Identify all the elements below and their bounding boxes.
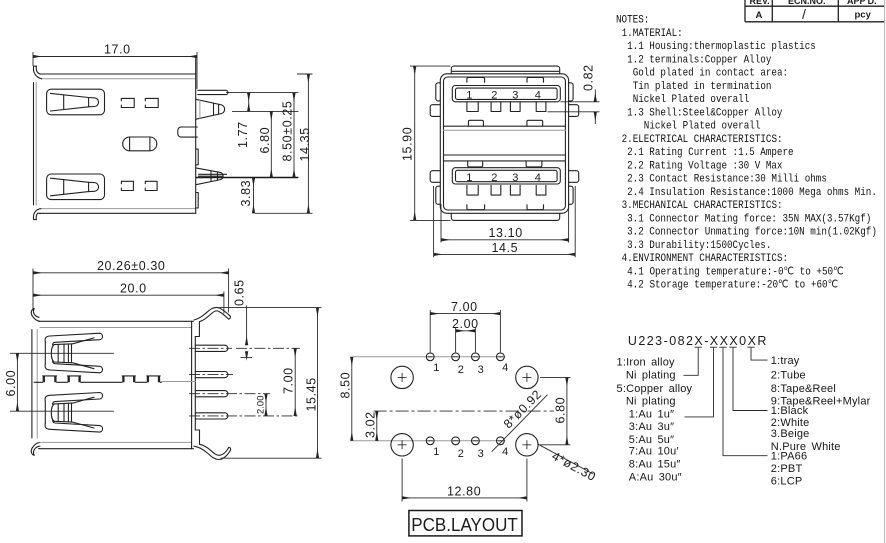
- ground latch upper: outer pill: [47, 89, 105, 115]
- board lock top-left: [430, 105, 440, 117]
- contact spring lower: [45, 393, 102, 433]
- extension line from pin1: [226, 92, 298, 94]
- svg-text:1.2 terminals:Copper Alloy: 1.2 terminals:Copper Alloy: [627, 54, 772, 66]
- svg-text:2.3 Contact Resistance:30 Mill: 2.3 Contact Resistance:30 Milli ohms: [627, 174, 827, 186]
- svg-text:ECN.NO.: ECN.NO.: [788, 0, 826, 6]
- svg-text:6.80: 6.80: [553, 397, 567, 424]
- shell left edge (double line): [33, 83, 35, 206]
- pin block top: [195, 322, 199, 337]
- svg-text:5:Au 5u″: 5:Au 5u″: [629, 434, 674, 446]
- dimension 15.90: [401, 66, 451, 220]
- pin 1: [195, 345, 228, 351]
- table grid: [745, 0, 885, 22]
- dimension 8.50±0.25: [281, 93, 295, 178]
- svg-text:6.00: 6.00: [4, 370, 18, 397]
- svg-text:4: 4: [535, 172, 541, 184]
- shell bottom edge (double line): [42, 208, 196, 210]
- lower port outer: [452, 168, 560, 184]
- lower port inner: [456, 170, 558, 181]
- svg-text:PCB.LAYOUT: PCB.LAYOUT: [411, 514, 518, 535]
- ear tab bottom-right: [569, 186, 574, 204]
- svg-text:Nickel Plated overall: Nickel Plated overall: [644, 121, 761, 133]
- mount flange claw top-right: [194, 307, 230, 321]
- rear housing top block: [451, 66, 559, 74]
- dimension 7.00: [430, 300, 500, 352]
- ground latch lower: inner fork: [51, 178, 99, 196]
- svg-text:1: 1: [466, 90, 472, 102]
- dimension 2.00: [452, 317, 479, 352]
- svg-text:7.00: 7.00: [451, 300, 478, 314]
- svg-text:Tin plated in termination: Tin plated in termination: [633, 81, 772, 93]
- upper port inner: [456, 88, 558, 99]
- svg-text:5:Copper alloy: 5:Copper alloy: [617, 383, 693, 395]
- dimension 1.77: [232, 93, 298, 148]
- lower contact pads: [467, 185, 546, 195]
- svg-text:1:PA66: 1:PA66: [771, 450, 807, 462]
- svg-text:3: 3: [512, 90, 518, 102]
- pin 2: [195, 372, 228, 378]
- mid tabs below divider: [468, 161, 483, 167]
- board lock bottom-left: [430, 171, 440, 183]
- dimension 14.5: [434, 186, 576, 257]
- contact fork upper right: [196, 99, 225, 119]
- row line bottom (extension): [354, 440, 506, 442]
- underline X material: [729, 346, 736, 348]
- svg-text:3: 3: [512, 172, 518, 184]
- pin block bottom: [195, 430, 199, 444]
- underline X plating: [710, 346, 717, 348]
- dimension 14.35: [255, 74, 313, 213]
- svg-text:1: 1: [433, 446, 439, 458]
- svg-text:1.3 Shell:Steel&Copper Alloy: 1.3 Shell:Steel&Copper Alloy: [627, 107, 783, 119]
- ear tab bottom-left: [436, 186, 441, 204]
- leader 8*Φ0.92: [492, 387, 548, 452]
- dimension 0.82: [548, 64, 600, 124]
- svg-text:Ni plating: Ni plating: [626, 396, 676, 408]
- ground latch lower: outer pill: [47, 174, 105, 200]
- svg-text:2.00: 2.00: [256, 396, 267, 415]
- leader to material option: [723, 348, 768, 456]
- center stadium hole: [123, 137, 157, 151]
- pin 4: [195, 413, 228, 419]
- svg-text:2: 2: [491, 172, 497, 184]
- svg-text:3.3 Durability:1500Cycles.: 3.3 Durability:1500Cycles.: [627, 240, 771, 252]
- housing right edge (double line): [191, 321, 193, 448]
- svg-text:4.2 Storage temperature:-20℃ t: 4.2 Storage temperature:-20℃ to +60℃: [627, 280, 838, 292]
- svg-text:3:Au 3u″: 3:Au 3u″: [629, 421, 674, 433]
- svg-text:REV.: REV.: [750, 0, 770, 6]
- mount hole bottom-left: [391, 434, 413, 456]
- housing top-left curl: [31, 308, 39, 321]
- svg-text:1: 1: [433, 362, 439, 374]
- housing top edge (double line): [39, 320, 194, 322]
- terminal comb mid: [34, 381, 161, 383]
- mid divider lines: [444, 125, 566, 127]
- svg-text:2.00: 2.00: [452, 317, 479, 331]
- dimension 17.0: [33, 43, 197, 90]
- dimension 3.02: [363, 411, 377, 441]
- upper port outer: [452, 86, 560, 102]
- svg-text:15.45: 15.45: [305, 377, 319, 411]
- svg-text:2:PBT: 2:PBT: [771, 463, 803, 475]
- mount flange claw bottom-right: [194, 444, 231, 459]
- svg-text:NOTES:: NOTES:: [616, 15, 649, 27]
- svg-text:3.Beige: 3.Beige: [771, 428, 810, 440]
- svg-text:2.4 Insulation Resistance:1000: 2.4 Insulation Resistance:1000 Mega ohms…: [627, 187, 877, 199]
- svg-text:7.00: 7.00: [282, 367, 296, 394]
- svg-text:1:Au 1u″: 1:Au 1u″: [629, 409, 674, 421]
- housing bottom-left curl: [31, 442, 40, 455]
- ear tab top-left: [436, 83, 441, 101]
- svg-text:7:Au 10u′: 7:Au 10u′: [629, 446, 679, 458]
- svg-text:20.0: 20.0: [120, 282, 147, 296]
- ear tab top-right: [569, 83, 574, 101]
- svg-text:Gold plated in contact area:: Gold plated in contact area:: [633, 68, 788, 80]
- shell bottom-left curled flange: [33, 209, 41, 220]
- pin hole row bottom: 4 holes: [426, 437, 504, 445]
- svg-text:3: 3: [478, 364, 484, 376]
- svg-text:4: 4: [502, 446, 508, 458]
- svg-text:1.77: 1.77: [236, 121, 250, 148]
- mount hole bottom-right: [516, 434, 538, 456]
- leader to color option: [733, 348, 768, 411]
- svg-text:17.0: 17.0: [104, 43, 131, 57]
- vent hole bracket 4: [145, 181, 157, 190]
- svg-text:2:Tube: 2:Tube: [771, 370, 806, 382]
- extension line from fork tip (dark): [196, 177, 298, 179]
- svg-text:1:Iron alloy: 1:Iron alloy: [617, 356, 676, 368]
- terminal pin 1 flat: [198, 90, 228, 94]
- svg-text:4.ENVIRONMENT CHARACTERISTICS:: 4.ENVIRONMENT CHARACTERISTICS:: [622, 253, 789, 265]
- contact fork lower right: [196, 168, 223, 185]
- svg-text:1.1 Housing:thermoplastic plas: 1.1 Housing:thermoplastic plastics: [627, 41, 816, 53]
- svg-text:3.2 Connector Unmating force:1: 3.2 Connector Unmating force:10N min(1.0…: [627, 227, 877, 239]
- pin 3 centerline: [189, 393, 270, 395]
- board lock bottom-right: [569, 171, 579, 183]
- shell inner outline: [444, 77, 566, 210]
- dimension 6.80: [540, 377, 570, 444]
- svg-text:1:Black: 1:Black: [771, 405, 809, 417]
- svg-text:0.65: 0.65: [233, 279, 247, 306]
- contact spring upper: [45, 333, 102, 373]
- pin 1 centerline: [189, 347, 300, 349]
- svg-text:4.1 Operating temperature:-0℃: 4.1 Operating temperature:-0℃ to +50℃: [627, 266, 844, 278]
- pin 2 centerline: [189, 374, 233, 376]
- vent hole bracket 1: [121, 98, 134, 107]
- contact leader line upper: [10, 352, 114, 354]
- dimension 20.26±0.30: [33, 259, 229, 312]
- shell body top edge (double line): [41, 73, 196, 75]
- bottom inner tabs: [467, 205, 485, 210]
- svg-text:13.10: 13.10: [489, 226, 523, 240]
- mount hole top-right: [516, 366, 538, 388]
- svg-text:3.83: 3.83: [239, 180, 253, 207]
- shell outer outline: [440, 74, 568, 214]
- underline X color: [719, 346, 726, 348]
- dimension 8.50: [338, 357, 352, 441]
- svg-text:3: 3: [478, 448, 484, 460]
- side tab rect upper: [196, 149, 198, 165]
- housing left edge (double line): [31, 330, 33, 439]
- svg-text:U223-082X-XXX0XR: U223-082X-XXX0XR: [628, 334, 767, 348]
- shell right edge: [195, 58, 197, 214]
- svg-text:2.ELECTRICAL CHARACTERISTICS:: 2.ELECTRICAL CHARACTERISTICS:: [622, 134, 783, 146]
- dimension 3.83: [239, 178, 254, 214]
- mid tabs above divider: [468, 120, 483, 126]
- PCB.LAYOUT title box: [409, 511, 522, 536]
- svg-text:/: /: [802, 6, 806, 22]
- svg-text:Ni plating: Ni plating: [626, 369, 676, 381]
- rear housing bottom block: [451, 213, 559, 220]
- shell top-left curled flange: [33, 66, 41, 79]
- pin 4 centerline: [189, 415, 300, 417]
- dimension 12.80: [402, 459, 527, 502]
- key notch: [178, 127, 198, 137]
- row line top (extension): [354, 356, 506, 358]
- svg-text:20.26±0.30: 20.26±0.30: [97, 259, 165, 273]
- svg-text:8:Tape&Reel: 8:Tape&Reel: [771, 383, 836, 395]
- housing bottom edge (double line): [40, 441, 192, 443]
- svg-text:6.80: 6.80: [258, 127, 272, 154]
- svg-text:15.90: 15.90: [401, 127, 415, 161]
- svg-text:APP'D.: APP'D.: [847, 0, 877, 6]
- svg-text:3.02: 3.02: [363, 411, 377, 438]
- vent hole bracket 2: [145, 98, 158, 107]
- dimension 13.10: [441, 204, 569, 243]
- leader to shell option: [684, 348, 699, 376]
- svg-text:14.5: 14.5: [492, 241, 519, 255]
- leader to packing option: [751, 348, 768, 360]
- svg-text:4: 4: [502, 362, 508, 374]
- svg-text:2.1 Rating Current :1.5 Ampere: 2.1 Rating Current :1.5 Ampere: [627, 147, 794, 159]
- svg-text:pcy: pcy: [855, 9, 872, 20]
- dimension 7.00: [282, 348, 296, 416]
- leader to plating option: [685, 348, 714, 417]
- side tab rect lower: [196, 193, 198, 209]
- svg-text:8.50±0.25: 8.50±0.25: [281, 101, 295, 162]
- svg-text:6:LCP: 6:LCP: [771, 476, 803, 488]
- svg-text:1:tray: 1:tray: [771, 355, 800, 367]
- svg-text:2:White: 2:White: [771, 417, 810, 429]
- ground latch upper: inner fork: [51, 93, 99, 111]
- svg-text:1: 1: [466, 172, 472, 184]
- contact leader line lower: [10, 410, 114, 412]
- svg-text:2: 2: [491, 90, 497, 102]
- board lock top-right: [569, 105, 579, 117]
- top inner tabs: [467, 78, 485, 83]
- svg-text:0.82: 0.82: [582, 64, 596, 91]
- svg-text:12.80: 12.80: [447, 484, 481, 498]
- mount hole top-left: [391, 366, 413, 388]
- dimension 6.00: [4, 353, 18, 411]
- svg-text:A: A: [756, 10, 763, 21]
- pin 3: [195, 391, 228, 397]
- svg-text:2: 2: [458, 448, 464, 460]
- vent hole bracket 3: [121, 181, 133, 190]
- svg-text:8.50: 8.50: [338, 372, 352, 399]
- svg-text:3.1 Connector Mating force: 35: 3.1 Connector Mating force: 35N MAX(3.57…: [627, 213, 871, 225]
- dimension 15.45: [219, 308, 322, 459]
- dimension 0.65: [233, 279, 253, 358]
- svg-text:8:Au 15u″: 8:Au 15u″: [629, 459, 681, 471]
- svg-text:A:Au 30u″: A:Au 30u″: [629, 472, 682, 484]
- sheet frame right border: [884, 0, 886, 543]
- svg-text:2: 2: [458, 364, 464, 376]
- svg-text:Nickel Plated overall: Nickel Plated overall: [633, 94, 750, 106]
- leader 4*Φ2.30: [537, 444, 598, 484]
- svg-text:2.2 Rating Voltage :30 V Max: 2.2 Rating Voltage :30 V Max: [627, 160, 783, 172]
- center axis dash-dot line: [374, 410, 554, 412]
- dimension 6.80: [258, 111, 272, 177]
- underline X shell: [695, 346, 702, 348]
- upper contact pads: [467, 102, 546, 112]
- pin hole row top: 4 holes: [426, 353, 504, 361]
- svg-text:1.MATERIAL:: 1.MATERIAL:: [622, 28, 683, 40]
- dimension 20.0: [33, 282, 224, 314]
- svg-text:4: 4: [535, 90, 541, 102]
- dimension 2.00: [256, 394, 267, 416]
- underline X packing: [747, 346, 754, 348]
- svg-text:14.35: 14.35: [298, 127, 312, 161]
- svg-text:3.MECHANICAL CHARACTERISTICS:: 3.MECHANICAL CHARACTERISTICS:: [622, 200, 783, 212]
